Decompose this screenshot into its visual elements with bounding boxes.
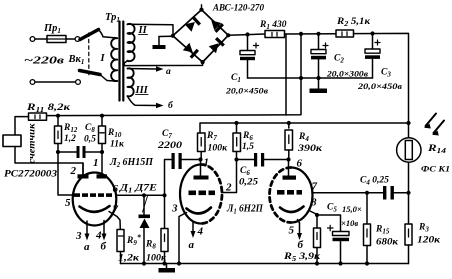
tube L2 cathode — [80, 206, 110, 212]
svg-text:0,25: 0,25 — [239, 178, 258, 188]
anode supply rail y123 — [200, 123, 409, 133]
tube L2b envelope (second half, right side dashed) — [180, 165, 222, 224]
svg-text:C4 0,25: C4 0,25 — [360, 176, 389, 187]
svg-text:a: a — [189, 239, 195, 251]
ground at bridge input — [153, 36, 173, 49]
wire vertical feed x286 top rail to lower rail — [285, 34, 287, 115]
svg-text:1,2: 1,2 — [64, 134, 76, 144]
svg-text:~220в: ~220в — [24, 56, 65, 67]
transformer Tr1 core — [120, 22, 124, 101]
svg-text:R1 430: R1 430 — [259, 20, 287, 31]
wire vertical x301 to common rail corner — [47, 34, 302, 116]
svg-text:R11 8,2к: R11 8,2к — [26, 103, 72, 114]
svg-text:11к: 11к — [110, 140, 125, 150]
resistor R7 — [198, 133, 206, 160]
node diode top junction — [142, 193, 146, 197]
svg-text:R2 5,1к: R2 5,1к — [336, 17, 371, 28]
tube L2b heater pin 4 arrow — [191, 221, 196, 238]
svg-text:7: 7 — [113, 204, 119, 216]
svg-text:2200: 2200 — [157, 141, 183, 151]
bridge rectifier AVS-120-270 — [171, 5, 231, 64]
node C2 bottom junction — [316, 76, 320, 80]
resistor R1 — [265, 31, 285, 38]
wire top rail R2 to right corner — [354, 33, 409, 123]
wire pin 2 (L2b) to R6 node — [222, 160, 237, 193]
tube L2 heater pin 4 arrow — [102, 221, 107, 241]
bridge diode bottom-right — [209, 37, 225, 53]
resistor R5 — [314, 228, 321, 264]
svg-text:б: б — [101, 241, 107, 253]
capacitor C8 — [58, 146, 102, 158]
node R12 top — [56, 114, 60, 118]
node x301 on ground bus — [299, 76, 303, 80]
svg-text:390к: 390к — [297, 144, 324, 154]
svg-text:5: 5 — [289, 225, 295, 237]
tube L1 grid — [277, 190, 302, 195]
resistor R12 — [55, 116, 62, 152]
light arrows into R14 — [424, 114, 444, 136]
node top rail junction x301 — [299, 32, 303, 36]
capacitor C7 — [172, 153, 200, 169]
node pin8/R5/C5 junction — [315, 213, 319, 217]
node R10 top — [100, 114, 104, 118]
node C3 top junction — [370, 31, 374, 35]
wire pin 3 (L2b) to bottom rail — [179, 213, 187, 264]
bridge diode top-right — [208, 17, 224, 33]
diode D1 D7E — [139, 195, 151, 263]
svg-text:2: 2 — [70, 165, 77, 177]
bottom rail — [121, 263, 409, 265]
tube L2 pin 1 riser and anode — [97, 152, 108, 179]
svg-text:×10в: ×10в — [341, 218, 358, 228]
node anode rail right junction — [406, 121, 410, 125]
tube L2 heater pin 3 arrow — [85, 221, 90, 241]
resistor R8 — [161, 229, 168, 264]
photoresistor R14 FS-K1 — [397, 123, 421, 193]
node C7/R7/pin1 junction — [198, 157, 202, 161]
node R15 bottom on rail — [365, 261, 369, 265]
transformer Tr1 primary winding I — [111, 38, 117, 81]
wire pin 6 grid out — [116, 194, 164, 196]
svg-text:Л2 6Н15П: Л2 6Н15П — [109, 156, 153, 169]
label III — [135, 85, 149, 96]
tube L1 envelope (left half dashed) — [270, 168, 313, 223]
svg-text:6: 6 — [297, 158, 303, 170]
svg-text:3: 3 — [171, 203, 178, 215]
capacitor C5 — [328, 225, 350, 263]
capacitor C1 — [240, 35, 259, 79]
svg-text:4: 4 — [197, 226, 204, 238]
wire counter bottom to tube pin 2 — [15, 147, 83, 175]
node C5 bottom on rail — [338, 261, 342, 265]
capacitor C6 — [237, 153, 289, 167]
node grid wire corner junction — [162, 193, 166, 197]
wire winding II bottom to bridge bottom vertex — [124, 61, 202, 66]
counter (schetchik) — [3, 135, 21, 147]
wire pin 5 to R12 bottom — [58, 152, 73, 195]
tube L2 grid — [74, 193, 112, 197]
resistor R15 — [364, 193, 371, 264]
label D1 D7E with leader — [119, 184, 157, 213]
svg-text:2: 2 — [225, 182, 232, 194]
resistor R10 — [99, 116, 106, 152]
svg-text:a: a — [84, 241, 90, 253]
resistor R3 — [405, 193, 412, 264]
heater output b arrow — [128, 96, 164, 108]
node R6 top — [234, 121, 238, 125]
svg-text:1: 1 — [93, 157, 99, 169]
node tube L2 pin1 junction — [100, 150, 104, 154]
tube L2b cathode — [187, 208, 212, 214]
node C1 top junction — [245, 32, 249, 36]
tube L2b grid — [189, 191, 216, 196]
node R6/C6/pin2 junction — [234, 157, 238, 161]
svg-text:РС2720003: РС2720003 — [4, 170, 57, 180]
node R12 bottom junction — [56, 150, 60, 154]
capacitor C4 — [383, 186, 409, 200]
wire top rail R1 to R2 — [285, 33, 337, 35]
bridge diode top-left — [185, 16, 201, 32]
svg-text:Д1 Д7Е: Д1 Д7Е — [119, 184, 157, 195]
svg-text:15,0×: 15,0× — [342, 204, 362, 214]
node R4 top — [287, 121, 291, 125]
fuse Pr1 — [30, 36, 80, 43]
node R5 bottom on rail — [315, 261, 319, 265]
wire corner up to C7 left — [165, 160, 172, 196]
ground below C2 — [310, 78, 328, 93]
tube L2 pin 2 riser and anode — [78, 163, 89, 179]
tube L1 pin 8 wire — [309, 211, 317, 229]
svg-text:счетчик: счетчик — [27, 123, 37, 164]
node R4/C6/pin6 junction — [286, 157, 290, 161]
wire bridge output to top rail — [228, 34, 265, 35]
capacitor C2 — [311, 34, 328, 78]
svg-text:100к: 100к — [208, 144, 229, 154]
tube L1 pin 6 riser and anode — [283, 160, 297, 180]
node C2 top junction — [316, 32, 320, 36]
bridge diode bottom-left — [183, 43, 199, 59]
svg-text:20,0×300в: 20,0×300в — [326, 69, 368, 79]
chassis ground on bottom rail — [159, 264, 176, 273]
heater output a arrow — [128, 66, 164, 71]
switch Vk1 — [30, 30, 114, 85]
resistor R6 — [233, 123, 241, 160]
svg-text:8: 8 — [311, 197, 317, 209]
capacitor C3 — [365, 34, 380, 79]
svg-text:6: 6 — [113, 183, 119, 195]
svg-text:0,5: 0,5 — [84, 135, 96, 145]
wire pin 7 (L1) grid out to C4 — [312, 192, 383, 194]
tube L1 heater pin 5 arrow — [297, 220, 302, 241]
svg-text:1,5: 1,5 — [242, 142, 254, 152]
svg-text:20,0×450в: 20,0×450в — [225, 86, 268, 96]
node photoresistor divider junction — [406, 191, 410, 195]
wire winding II top to bridge — [128, 24, 174, 36]
svg-text:7: 7 — [312, 181, 318, 193]
transformer Tr1 secondary winding II — [128, 24, 135, 61]
svg-text:3: 3 — [75, 230, 82, 242]
svg-text:R5 3,9к: R5 3,9к — [283, 252, 322, 263]
tube L2 pin 7 wire to R9 — [109, 212, 120, 230]
svg-text:б: б — [298, 239, 304, 251]
svg-text:ФС К1: ФС К1 — [421, 164, 450, 174]
node R8 bottom on rail — [162, 261, 166, 265]
resistor R4 — [285, 123, 293, 160]
wire pin8 node to C5 — [317, 215, 341, 232]
wire capacitor ground bus — [248, 77, 373, 79]
wire R11 left to counter — [15, 117, 29, 135]
resistor R9 — [117, 230, 124, 264]
node R15 top junction — [365, 191, 369, 195]
tube L2 envelope — [73, 173, 117, 226]
node diode bottom on rail — [142, 261, 146, 265]
transformer Tr1 heater winding III — [128, 68, 134, 96]
resistor R11 — [29, 113, 47, 120]
tube L1 cathode — [280, 207, 304, 213]
wire corner down to R8 — [164, 195, 166, 228]
resistor R2 — [336, 30, 354, 37]
svg-text:a: a — [166, 67, 171, 77]
node pin3 wire on rail — [177, 261, 181, 265]
svg-text:120к: 120к — [417, 236, 441, 246]
svg-text:20,0×450в: 20,0×450в — [357, 81, 402, 91]
svg-text:Л1 6Н2П: Л1 6Н2П — [226, 204, 264, 216]
svg-text:1: 1 — [204, 157, 210, 169]
svg-text:5: 5 — [65, 197, 71, 209]
tube L2b pin 1 riser and anode — [194, 160, 209, 180]
svg-text:1,2к: 1,2к — [118, 254, 140, 264]
label II — [138, 25, 148, 36]
svg-text:680к: 680к — [376, 238, 399, 248]
svg-text:АВС-120-270: АВС-120-270 — [212, 4, 264, 14]
